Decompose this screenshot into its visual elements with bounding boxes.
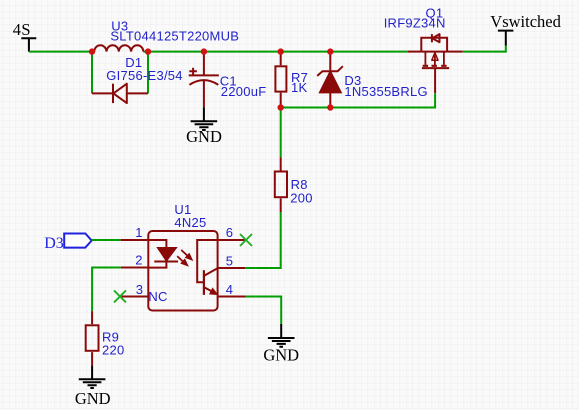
wire D1 left branch: [91, 52, 93, 94]
svg-text:4S: 4S: [13, 20, 31, 39]
resistor R9: [86, 311, 125, 366]
resistor R8: [275, 157, 313, 212]
U1 LED light arrows: [177, 250, 192, 266]
global label D3: [44, 234, 91, 252]
svg-text:3: 3: [136, 282, 143, 297]
svg-text:4N25: 4N25: [174, 215, 206, 230]
svg-text:200: 200: [290, 191, 312, 206]
U1 pin 5: [218, 254, 246, 269]
power symbol Vswitched: [490, 12, 561, 46]
svg-text:GND: GND: [75, 389, 111, 408]
svg-text:6: 6: [226, 225, 233, 240]
U1 pin 3 NC: [122, 282, 168, 304]
wire to Vswitched: [463, 46, 506, 52]
ground at pin 4: [263, 324, 299, 365]
U1 pin 6: [218, 225, 246, 240]
wire gate net: [281, 93, 435, 107]
svg-text:GND: GND: [186, 127, 222, 146]
svg-text:220: 220: [102, 342, 124, 357]
wire 4S to node A: [29, 51, 92, 53]
no-connect X pin 6: [240, 234, 252, 246]
resistor R7: [275, 52, 308, 108]
U1 pin 4: [218, 282, 246, 297]
wire D3 label to pin 1: [92, 239, 121, 241]
svg-text:4: 4: [226, 282, 233, 297]
optocoupler U1: [148, 202, 217, 311]
no-connect X pin 3: [114, 290, 126, 302]
U1 pin 2: [121, 253, 149, 268]
wire D1 right branch: [147, 52, 149, 94]
svg-text:D3: D3: [44, 235, 64, 252]
svg-text:5: 5: [226, 254, 233, 269]
junction dots top rail: [89, 48, 334, 54]
svg-text:GI756-E3/54: GI756-E3/54: [106, 68, 182, 83]
capacitor C1: [189, 52, 267, 108]
U1 internal LED: [148, 240, 178, 268]
ground under C1: [186, 107, 222, 146]
svg-text:2: 2: [135, 253, 142, 268]
svg-text:1K: 1K: [291, 80, 307, 95]
svg-text:1: 1: [135, 225, 142, 240]
transistor Q1: [384, 5, 463, 93]
wire pin 4 to ground: [246, 297, 282, 324]
zener diode D3: [317, 52, 428, 108]
wire R8 branch: [280, 108, 282, 158]
svg-text:2200uF: 2200uF: [221, 84, 267, 99]
power symbol 4S: [13, 20, 37, 52]
svg-text:SLT044125T220MUB: SLT044125T220MUB: [110, 29, 239, 44]
svg-text:NC: NC: [148, 289, 167, 304]
wire top rail: [148, 51, 408, 53]
U1 pin 1: [121, 225, 149, 240]
svg-text:Vswitched: Vswitched: [490, 12, 561, 31]
ground under R9: [75, 366, 111, 409]
svg-text:GND: GND: [263, 346, 299, 365]
junction dots lower rail: [278, 104, 334, 110]
inductor U3: [92, 18, 239, 51]
wire pin 2 to R9: [92, 268, 121, 312]
svg-text:1N5355BRLG: 1N5355BRLG: [344, 84, 427, 99]
U1 internal phototransistor: [197, 240, 217, 295]
svg-text:IRF9Z34N: IRF9Z34N: [384, 16, 446, 31]
diode D1: [92, 55, 183, 103]
wire R8 to pin 5: [245, 212, 281, 268]
